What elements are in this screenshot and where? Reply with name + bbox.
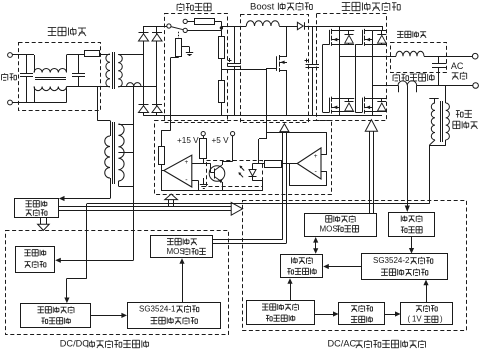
svg-text:): ) <box>440 315 443 324</box>
svg-text:SG3524-2: SG3524-2 <box>373 256 410 265</box>
svg-text:+5 V: +5 V <box>212 136 230 145</box>
svg-text:DC/DC: DC/DC <box>60 339 89 349</box>
svg-text:AC: AC <box>451 61 464 71</box>
svg-text:+: + <box>314 153 318 160</box>
svg-text:+15 V: +15 V <box>177 136 199 145</box>
svg-text:MOS: MOS <box>167 247 185 256</box>
svg-text:SG3524-1: SG3524-1 <box>139 304 176 313</box>
svg-text:1V: 1V <box>412 315 422 324</box>
svg-text:MOS: MOS <box>320 224 338 233</box>
svg-text:+: + <box>185 159 189 166</box>
svg-text:(: ( <box>408 315 411 324</box>
svg-text:Boost: Boost <box>250 1 275 12</box>
svg-text:DC/AC: DC/AC <box>328 339 357 349</box>
